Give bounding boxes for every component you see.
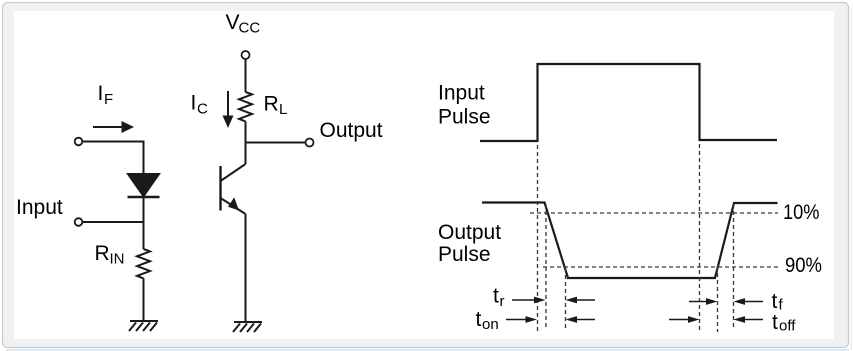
output pulse waveform	[482, 203, 778, 279]
label toff	[772, 311, 796, 335]
svg-text:C: C	[197, 101, 208, 118]
wire RIN to ground	[143, 278, 145, 321]
svg-text:L: L	[279, 101, 287, 118]
wire top input horizontal	[83, 141, 144, 143]
IC current arrow	[223, 91, 234, 128]
svg-text:Input: Input	[16, 196, 63, 219]
svg-text:I: I	[98, 82, 104, 105]
dashed vertical input rising edge	[537, 145, 539, 332]
svg-text:Pulse: Pulse	[438, 243, 491, 266]
svg-text:IN: IN	[110, 251, 125, 268]
toff arrow right	[734, 316, 764, 323]
svg-text:r: r	[500, 293, 505, 310]
svg-text:t: t	[476, 308, 482, 331]
svg-text:R: R	[264, 93, 279, 116]
svg-text:90%: 90%	[785, 254, 822, 277]
svg-text:Pulse: Pulse	[438, 106, 491, 129]
label tf	[772, 290, 784, 314]
svg-text:t: t	[493, 285, 499, 308]
LED diode D1	[127, 174, 160, 198]
wire collector node to output	[245, 142, 306, 144]
toff arrow left	[669, 316, 700, 323]
tr arrow left	[512, 297, 546, 304]
dashed horizontal 90% level	[543, 266, 781, 268]
label tr	[493, 285, 505, 311]
tr arrow right	[566, 297, 596, 304]
VCC terminal	[242, 51, 250, 59]
dashed vertical output 10% fall	[545, 204, 547, 330]
transistor Q1	[221, 143, 246, 215]
ground right	[233, 322, 262, 332]
dashed vertical output 10% rise	[733, 204, 735, 330]
wire emitter to ground	[245, 214, 247, 322]
tf arrow right	[734, 298, 764, 305]
label IF	[98, 82, 114, 108]
svg-text:10%: 10%	[783, 201, 820, 224]
resistor RIN	[137, 249, 150, 278]
input bottom terminal	[75, 218, 83, 226]
label Input Pulse	[438, 82, 491, 129]
svg-text:Input: Input	[438, 82, 485, 105]
tf arrow left	[689, 298, 718, 305]
svg-text:off: off	[779, 318, 796, 335]
svg-text:t: t	[772, 290, 778, 313]
wire cathode vertical	[143, 197, 145, 249]
output terminal	[306, 139, 314, 147]
wire VCC to RL	[245, 60, 247, 93]
dashed vertical input falling edge	[699, 144, 701, 332]
input pulse waveform	[480, 64, 777, 141]
ton arrow right	[566, 316, 596, 323]
label IC	[191, 92, 209, 118]
svg-text:Output: Output	[438, 221, 501, 244]
ton arrow left	[506, 316, 537, 323]
wire RL to collector node	[245, 121, 247, 143]
dashed vertical output 90% rise	[717, 266, 719, 332]
svg-text:I: I	[191, 92, 197, 115]
label VCC	[226, 11, 261, 37]
label Output Pulse	[438, 221, 501, 266]
svg-text:Output: Output	[320, 119, 383, 142]
label RIN	[95, 242, 125, 268]
svg-text:R: R	[95, 242, 110, 265]
label RL	[264, 93, 288, 119]
resistor RL	[239, 92, 252, 121]
ground left	[129, 321, 158, 331]
svg-text:CC: CC	[239, 20, 261, 37]
IF current arrow	[93, 121, 134, 133]
svg-text:F: F	[104, 91, 113, 108]
wire anode vertical	[143, 141, 145, 175]
svg-text:V: V	[226, 11, 240, 34]
dashed horizontal 10% level	[530, 212, 778, 214]
svg-text:on: on	[482, 316, 499, 333]
svg-text:t: t	[772, 311, 778, 334]
wire bottom input horizontal	[83, 221, 144, 223]
input top terminal	[75, 138, 83, 146]
label ton	[476, 308, 499, 333]
dashed vertical output 90% fall	[565, 268, 567, 330]
